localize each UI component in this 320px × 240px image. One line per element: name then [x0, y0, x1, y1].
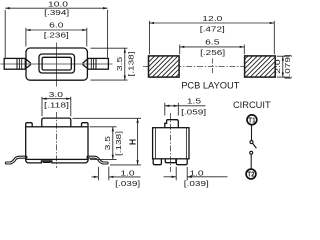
- dimension 3.5 top view: [91, 48, 136, 80]
- top view left terminal: [4, 58, 25, 69]
- svg-text:CIRCUIT: CIRCUIT: [233, 100, 271, 110]
- svg-text:6.0: 6.0: [49, 20, 63, 29]
- dimension 10.0: [5, 0, 107, 58]
- dimension 6.0: [26, 20, 87, 46]
- top view button inner: [42, 57, 71, 70]
- svg-text:1.0: 1.0: [189, 169, 203, 178]
- svg-text:[.138]: [.138]: [126, 52, 135, 77]
- dimension 2.0: [273, 54, 292, 79]
- dimension 1.5: [165, 97, 206, 117]
- front view left bump: [26, 123, 33, 127]
- terminal T1: [247, 115, 257, 125]
- svg-text:T1: T1: [248, 116, 255, 125]
- front view right bump: [82, 123, 89, 127]
- svg-text:12.0: 12.0: [202, 14, 222, 23]
- front view left lead: [6, 157, 26, 163]
- svg-text:PCB LAYOUT: PCB LAYOUT: [181, 81, 240, 91]
- side view center bump: [165, 159, 176, 163]
- svg-text:3.5: 3.5: [103, 136, 112, 150]
- front view body: [26, 127, 88, 160]
- pcb vertical centerline: [211, 59, 213, 75]
- front view base plate: [26, 159, 88, 163]
- side view vertical centerline: [170, 113, 172, 172]
- dimension H: [73, 118, 142, 165]
- svg-text:[.472]: [.472]: [200, 25, 225, 34]
- dimension 1.0 front view: [92, 167, 141, 188]
- svg-text:T2: T2: [247, 170, 254, 179]
- front view right lead: [88, 157, 107, 163]
- pcb left pad: [149, 56, 180, 77]
- terminal T2: [246, 169, 256, 179]
- svg-text:2.0: 2.0: [273, 59, 282, 73]
- svg-text:[.039]: [.039]: [115, 179, 140, 188]
- contact upper: [250, 141, 253, 144]
- side view left foot: [153, 159, 161, 165]
- svg-text:[.039]: [.039]: [184, 179, 209, 188]
- wire contact to T2: [250, 154, 252, 169]
- svg-text:[.256]: [.256]: [200, 48, 225, 57]
- svg-text:H: H: [127, 139, 137, 145]
- top view button outer: [39, 54, 75, 73]
- top view left notch: [26, 59, 31, 69]
- side view body inner edge right: [185, 128, 187, 158]
- svg-text:[.059]: [.059]: [181, 107, 206, 116]
- contact lower: [250, 151, 253, 154]
- svg-text:[.118]: [.118]: [44, 100, 69, 109]
- switch blade: [253, 143, 257, 148]
- svg-text:1.5: 1.5: [187, 97, 201, 106]
- pcb centerline: [143, 65, 277, 67]
- svg-text:[.236]: [.236]: [44, 31, 69, 40]
- dimension 1.0 side view: [164, 167, 228, 188]
- front view vertical centerline: [56, 112, 58, 168]
- top view right terminal: [88, 58, 109, 69]
- top view horizontal centerline: [1, 63, 113, 65]
- svg-text:3.0: 3.0: [49, 90, 63, 99]
- side view body: [153, 128, 189, 159]
- side view plunger: [165, 120, 179, 128]
- svg-text:1.0: 1.0: [120, 169, 134, 178]
- svg-text:3.5: 3.5: [115, 57, 124, 71]
- wire T1 to contact: [251, 125, 253, 141]
- svg-text:[.138]: [.138]: [114, 131, 123, 156]
- top view switch body: [26, 48, 87, 80]
- side view body inner edge left: [154, 128, 156, 158]
- svg-text:[.394]: [.394]: [44, 8, 69, 17]
- top view vertical centerline: [56, 43, 58, 87]
- pcb right pad: [245, 56, 276, 77]
- dimension 3.5 front view: [90, 127, 124, 160]
- dimension 12.0: [149, 14, 274, 54]
- side view right foot: [176, 159, 187, 165]
- top view right notch: [83, 59, 88, 69]
- front view base tab: [43, 161, 51, 162]
- dimension 3.0: [42, 90, 71, 116]
- svg-text:6.5: 6.5: [205, 37, 219, 46]
- front view plunger: [42, 118, 71, 127]
- svg-text:[.079]: [.079]: [283, 54, 292, 79]
- dimension 6.5: [180, 37, 245, 57]
